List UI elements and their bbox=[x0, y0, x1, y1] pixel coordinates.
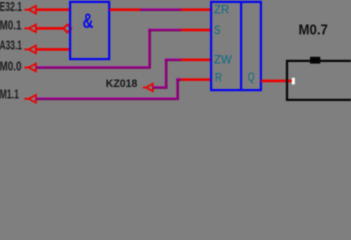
svg-text:ZW: ZW bbox=[214, 53, 232, 67]
continuation arrow M0.1 bbox=[24, 25, 36, 33]
wire counter Q output to coil box bbox=[261, 80, 292, 83]
wire M0.1 to negation diamond bbox=[36, 27, 65, 30]
wire KZ018 riser up to ZW row bbox=[165, 59, 168, 89]
negation diamond at AND input 2 bbox=[63, 25, 71, 33]
coil box top marker square bbox=[310, 57, 320, 64]
counter box divider bbox=[240, 2, 242, 90]
wire R row red segment into counter R pin bbox=[181, 78, 211, 81]
wire S row red segment into counter S pin bbox=[181, 29, 211, 32]
svg-text:M1.1: M1.1 bbox=[0, 87, 19, 101]
wire E32.1 to AND input 1 bbox=[36, 8, 71, 11]
wire KZ018 horizontal run bbox=[153, 86, 168, 89]
wire AND output red segment bbox=[110, 8, 141, 11]
wire M0.0 riser up to S row bbox=[148, 29, 151, 69]
wire M1.1 horizontal run bbox=[36, 98, 178, 101]
wire A33.1 to AND input 3 bbox=[36, 48, 71, 51]
wire R row purple corner segment bbox=[176, 78, 181, 81]
svg-text:Q: Q bbox=[248, 70, 255, 84]
wire ZW row purple segment bbox=[165, 59, 182, 62]
wire M1.1 riser up to R row bbox=[176, 78, 179, 100]
wire S row purple segment bbox=[148, 29, 181, 32]
continuation arrow KZ018 bbox=[143, 84, 153, 92]
counter box Z (outer) bbox=[211, 2, 261, 90]
wire AND output red segment into counter ZR pin bbox=[181, 8, 211, 11]
coil output box M0.7 bbox=[287, 61, 351, 100]
svg-text:E32.1: E32.1 bbox=[0, 0, 22, 14]
continuation arrow M0.0 bbox=[24, 64, 36, 72]
cursor tick at coil input bbox=[292, 78, 295, 85]
svg-text:M0.0: M0.0 bbox=[0, 59, 22, 73]
svg-text:&: & bbox=[83, 10, 94, 33]
wire M0.0 horizontal run bbox=[36, 66, 150, 69]
svg-text:ZR: ZR bbox=[214, 3, 230, 17]
continuation arrow A33.1 bbox=[24, 46, 36, 54]
wire ZW row red segment into counter ZW pin bbox=[181, 59, 211, 62]
svg-text:M0.1: M0.1 bbox=[0, 18, 22, 32]
continuation arrow E32.1 bbox=[24, 6, 36, 14]
svg-text:R: R bbox=[215, 70, 222, 84]
continuation arrow M1.1 bbox=[24, 95, 36, 103]
svg-text:M0.7: M0.7 bbox=[299, 22, 328, 38]
op AND box U1 bbox=[70, 2, 109, 59]
svg-text:KZ018: KZ018 bbox=[106, 78, 138, 90]
svg-text:A33.1: A33.1 bbox=[0, 38, 22, 52]
wire AND output purple segment bbox=[140, 8, 181, 11]
svg-text:S: S bbox=[214, 23, 221, 37]
